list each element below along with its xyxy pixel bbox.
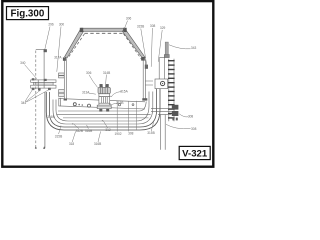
svg-text:318: 318 <box>69 142 75 146</box>
svg-text:314B: 314B <box>103 71 110 75</box>
svg-text:315B: 315B <box>147 131 154 135</box>
svg-text:340: 340 <box>20 61 26 65</box>
svg-text:352B: 352B <box>76 129 83 133</box>
svg-text:296: 296 <box>48 22 54 26</box>
svg-text:308: 308 <box>188 115 194 119</box>
svg-text:306: 306 <box>126 17 132 21</box>
svg-text:315A: 315A <box>120 90 128 94</box>
svg-text:306: 306 <box>86 71 92 75</box>
svg-text:317A: 317A <box>54 55 62 59</box>
svg-text:315B: 315B <box>116 101 123 105</box>
svg-text:316B: 316B <box>94 142 101 146</box>
svg-text:313A: 313A <box>82 91 90 95</box>
svg-text:308: 308 <box>128 132 134 136</box>
svg-text:1902: 1902 <box>114 132 121 136</box>
svg-text:312: 312 <box>105 128 111 132</box>
svg-text:344: 344 <box>21 101 27 105</box>
svg-text:329: 329 <box>160 26 166 30</box>
svg-text:308: 308 <box>150 24 156 28</box>
svg-text:343: 343 <box>191 46 197 50</box>
svg-text:V-321: V-321 <box>182 149 208 160</box>
svg-text:300: 300 <box>59 22 65 26</box>
svg-text:315B: 315B <box>137 25 144 29</box>
svg-text:308: 308 <box>191 127 197 131</box>
svg-text:315B: 315B <box>55 135 62 139</box>
svg-text:Fig.300: Fig.300 <box>11 9 45 20</box>
svg-text:316B: 316B <box>47 115 54 119</box>
svg-text:316B: 316B <box>85 129 92 133</box>
